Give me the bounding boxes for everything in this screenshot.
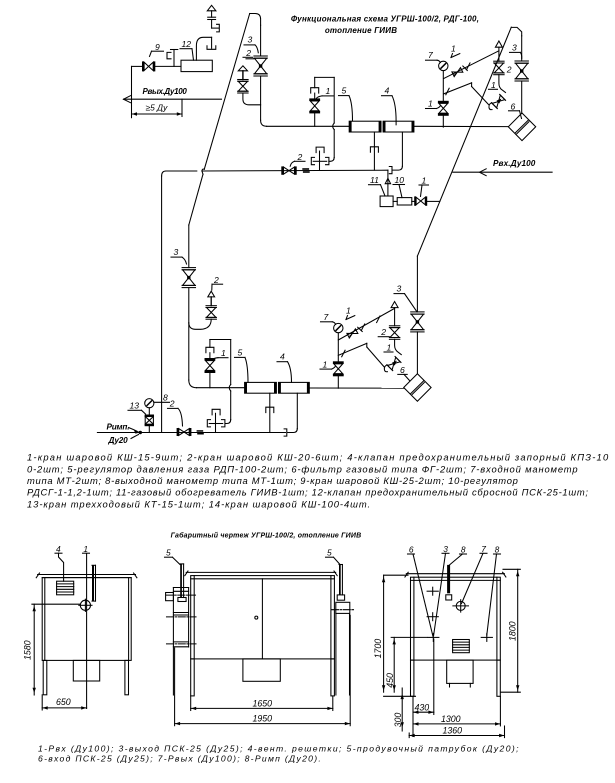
- svg-text:1-Рвх (Ду100); 3-выход ПСК-25: 1-Рвх (Ду100); 3-выход ПСК-25 (Ду25); 4-…: [38, 743, 520, 753]
- svg-text:2: 2: [245, 48, 251, 58]
- wire reg pipe lower right: [309, 387, 403, 389]
- cabinet B body: [191, 576, 335, 659]
- wire outlet pipe: [124, 98, 222, 100]
- stack union: [212, 27, 219, 29]
- gauge stem lower: [337, 333, 339, 362]
- purge tip lower-left: [208, 291, 215, 297]
- stack flanges: [208, 16, 216, 18]
- svg-text:Рвх.Ду100: Рвх.Ду100: [493, 159, 536, 168]
- regulator 5 RDP-100 lower: [245, 382, 277, 393]
- stem reg5 upper: [373, 132, 375, 170]
- stack drain cap: [207, 46, 216, 50]
- purge curve: [243, 93, 261, 105]
- cabinet B left pipes: [172, 588, 174, 696]
- svg-text:1650: 1650: [253, 698, 273, 708]
- purge tip triangle: [238, 66, 247, 71]
- cabinet C legs: [411, 660, 414, 696]
- ground line: [384, 695, 416, 697]
- arrow inlet: [480, 169, 487, 176]
- cabinet A louver 4: [57, 581, 74, 595]
- svg-text:1950: 1950: [253, 714, 273, 724]
- svg-text:1700: 1700: [373, 639, 383, 659]
- cabinet A body: [42, 578, 131, 661]
- svg-text:3: 3: [512, 42, 517, 52]
- cabinet A legs: [43, 660, 47, 694]
- cabinet C cross vyh: [428, 636, 439, 638]
- purge valve 2 upper-left: [238, 79, 248, 81]
- purge valve 2 upper-right: [494, 60, 504, 62]
- cap end lower manifold: [284, 429, 287, 436]
- valve 3 upper-right KSh-100: [515, 60, 528, 62]
- cabinet A pipe axis: [86, 554, 88, 709]
- flue pipe: [196, 37, 211, 60]
- purge valve 2 lower-left: [206, 305, 216, 307]
- cabinet B bottom box: [243, 659, 280, 681]
- svg-text:1: 1: [491, 80, 496, 90]
- IFS joint lower: [212, 409, 220, 415]
- left outlet riser: [162, 171, 166, 176]
- svg-text:3: 3: [174, 247, 179, 257]
- wire outlet manifold upper: [166, 170, 197, 172]
- svg-text:1: 1: [346, 306, 351, 316]
- svg-text:650: 650: [56, 697, 71, 707]
- c bracket lower: [384, 365, 387, 372]
- cabinet B legs: [191, 659, 195, 696]
- svg-text:Римп.: Римп.: [107, 422, 130, 431]
- wire to lower reg pipe: [189, 380, 197, 388]
- bend to diagonal: [250, 14, 261, 26]
- svg-text:1360: 1360: [443, 726, 463, 736]
- cabinet C circle 7: [456, 601, 465, 610]
- svg-text:13-кран трехходовый КТ-15-1шт;: 13-кран трехходовый КТ-15-1шт; 14-кран ш…: [27, 498, 371, 509]
- dim 1700: [383, 575, 385, 692]
- svg-text:11: 11: [370, 175, 379, 185]
- svg-text:4: 4: [280, 352, 285, 362]
- svg-text:1: 1: [451, 44, 456, 54]
- svg-text:6: 6: [400, 365, 405, 375]
- cap over valve lower: [206, 347, 214, 352]
- svg-text:2: 2: [213, 275, 219, 285]
- cabinet B purge pipe left 5: [180, 564, 182, 598]
- valve 1 gauge upper: [438, 101, 449, 104]
- valve 9: [142, 61, 144, 71]
- cabinet A pipe height line: [32, 603, 80, 605]
- three-way valve 13: [148, 408, 150, 415]
- purge stack lower-center: [391, 302, 398, 308]
- cabinet C roof: [406, 573, 504, 575]
- svg-text:1580: 1580: [23, 640, 33, 660]
- cabinet A roof: [38, 574, 136, 576]
- svg-text:Габаритный чертеж УГРШ-100/2,: Габаритный чертеж УГРШ-100/2, отопление …: [171, 532, 362, 540]
- cabinet B handle: [255, 616, 258, 619]
- wire right main vertical: [521, 36, 523, 61]
- svg-text:1800: 1800: [507, 621, 517, 641]
- dim 1950: [174, 648, 176, 726]
- svg-text:7: 7: [324, 312, 330, 322]
- IFS joint upper: [316, 147, 324, 153]
- junction dot: [139, 431, 142, 434]
- cabinet B roof: [186, 571, 336, 573]
- cabinet A circle: [80, 600, 90, 610]
- c bracket upper: [489, 103, 492, 110]
- svg-text:12: 12: [182, 39, 192, 49]
- cabinet C louver: [453, 640, 470, 653]
- relief valve PSK lower: [387, 357, 401, 371]
- gauge 7 lower: [334, 323, 343, 332]
- regulator 5 RDP-100 upper: [349, 121, 381, 132]
- cabinet C cross 8b: [481, 636, 492, 638]
- wire valve9 branch: [132, 65, 143, 67]
- valve 3 lower-left KSh-100: [182, 267, 195, 269]
- svg-text:8: 8: [495, 545, 500, 555]
- bend top right: [511, 27, 521, 35]
- stem bypass upper: [314, 114, 316, 127]
- valve 2 manifold upper: [281, 166, 283, 174]
- cabinet B divider: [261, 579, 263, 659]
- cabinet C cross 3: [427, 590, 438, 592]
- dim 450: [391, 636, 427, 638]
- stem reg5 lower: [269, 393, 271, 432]
- svg-text:1-кран шаровой КШ-15-9шт; 2-кр: 1-кран шаровой КШ-15-9шт; 2-кран шаровой…: [27, 452, 609, 463]
- svg-text:1: 1: [422, 176, 427, 186]
- svg-text:2: 2: [297, 152, 303, 162]
- svg-text:6: 6: [511, 102, 516, 112]
- gauge impulse diagonal upper: [444, 51, 499, 79]
- gauge 8: [145, 399, 154, 408]
- cabinet C bottom box: [447, 660, 473, 683]
- cabinet C vent bar 8: [447, 565, 450, 593]
- regulator 10 RDSG: [397, 198, 412, 205]
- svg-text:13: 13: [130, 401, 140, 411]
- wire lower-left vertical: [188, 225, 190, 268]
- vent stack pipe: [211, 37, 213, 48]
- wire diagonal upper-left: [204, 14, 249, 170]
- purge drop kink lower: [395, 339, 402, 354]
- wire riser upper-left: [260, 25, 262, 56]
- svg-text:4: 4: [56, 544, 61, 554]
- cabinet A vent flag: [92, 565, 94, 601]
- cabinet A bottom box: [73, 660, 99, 681]
- filter 6 upper: [508, 113, 535, 141]
- union on branch: [173, 50, 175, 67]
- svg-text:0-2шт; 5-регулятор давления га: 0-2шт; 5-регулятор давления газа РДП-100…: [27, 463, 578, 474]
- stem valve4 upper: [401, 132, 403, 166]
- valve 3 lower-right KSh-100: [411, 311, 424, 313]
- svg-text:6-вход ПСК-25 (Ду25); 7-Рвых (: 6-вход ПСК-25 (Ду25); 7-Рвых (Ду100); 8-…: [38, 754, 322, 764]
- insulation mark lower: [197, 430, 204, 432]
- filter 6 lower: [404, 374, 431, 402]
- gauge stem upper: [442, 71, 444, 101]
- cabinet B purge pipe right 5: [339, 565, 341, 595]
- hop over manifold: [202, 169, 204, 174]
- svg-text:типа МТ-2шт; 8-выходной маноме: типа МТ-2шт; 8-выходной манометр типа МТ…: [27, 475, 519, 486]
- wire reg feed pipe upper: [267, 125, 349, 127]
- svg-text:5: 5: [238, 347, 243, 357]
- svg-text:450: 450: [385, 673, 395, 688]
- svg-text:300: 300: [393, 713, 403, 728]
- relief zigzag upper: [444, 83, 472, 94]
- dim 430: [433, 639, 435, 715]
- cap end upper manifold: [389, 167, 392, 174]
- svg-text:2: 2: [380, 327, 386, 337]
- svg-text:4: 4: [385, 86, 390, 96]
- insulation mark: [302, 168, 309, 170]
- svg-text:2: 2: [169, 399, 175, 409]
- purge curve lower-left: [189, 319, 211, 329]
- svg-text:3: 3: [443, 544, 448, 554]
- stem bypass lower: [209, 373, 211, 388]
- dim 300: [401, 688, 403, 731]
- svg-text:3: 3: [397, 284, 402, 294]
- svg-text:7: 7: [481, 544, 486, 554]
- wire heater to diagonal: [427, 200, 440, 202]
- svg-text:8: 8: [163, 392, 168, 402]
- hop loop lower: [229, 385, 231, 392]
- wire filter to reg pipe: [414, 125, 508, 127]
- purge stack upper-right: [495, 41, 502, 47]
- purge valve 2 lower-center: [389, 325, 399, 327]
- valve 2 impulse: [177, 428, 179, 436]
- wire reg feed pipe lower: [197, 387, 245, 389]
- cap over valve 1: [311, 88, 319, 93]
- valve 1 heater: [414, 196, 416, 205]
- svg-text:1300: 1300: [441, 714, 461, 724]
- svg-text:5: 5: [327, 548, 332, 558]
- svg-text:3: 3: [248, 35, 253, 45]
- svg-text:1: 1: [83, 544, 88, 554]
- arrow outlet: [124, 96, 131, 103]
- cabinet C cross 6: [427, 616, 438, 618]
- svg-text:7: 7: [428, 50, 434, 60]
- svg-text:8: 8: [461, 545, 466, 555]
- dim 650: [41, 695, 43, 710]
- svg-text:Рвых.Ду100: Рвых.Ду100: [143, 87, 188, 96]
- wire valve to reg pipe: [260, 76, 262, 120]
- valve 4 KPZ-100 upper: [383, 121, 414, 132]
- svg-text:1: 1: [428, 99, 433, 109]
- svg-text:5: 5: [166, 548, 171, 558]
- bypass loop upper: [314, 77, 316, 87]
- svg-text:РДСГ-1-1,2-1шт; 11-газовый обо: РДСГ-1-1,2-1шт; 11-газовый обогреватель …: [27, 487, 589, 498]
- valve 3 upper-left KSh-100: [254, 55, 267, 57]
- svg-text:430: 430: [415, 702, 430, 712]
- heater 12: [181, 60, 212, 71]
- svg-text:≥5 Ду: ≥5 Ду: [146, 103, 169, 113]
- valve 4 KPZ-100 lower: [279, 382, 310, 393]
- cabinet B right pipe: [336, 602, 350, 613]
- dim 1360: [408, 733, 410, 738]
- svg-text:5: 5: [342, 85, 347, 95]
- svg-text:9: 9: [155, 42, 160, 52]
- valve 1 bypass upper: [309, 98, 320, 101]
- cabinet C body: [411, 577, 501, 660]
- relief zigzag lower: [338, 343, 367, 355]
- stack tip: [207, 5, 216, 11]
- rimp arrow: [129, 428, 138, 432]
- gauge impulse diagonal lower: [338, 308, 394, 340]
- gauge 7 upper: [439, 61, 448, 70]
- stem valve4 lower: [296, 393, 298, 429]
- svg-text:2: 2: [506, 64, 512, 74]
- relief valve PSK upper: [491, 94, 505, 108]
- heater 11 GIIV: [380, 196, 393, 207]
- dim 1800: [503, 568, 520, 570]
- wire impulse pipe lower: [97, 432, 285, 434]
- svg-text:Ду20: Ду20: [108, 436, 129, 445]
- svg-text:6: 6: [409, 545, 414, 555]
- bypass loop lower: [209, 340, 211, 348]
- svg-text:1: 1: [323, 359, 328, 369]
- svg-text:1: 1: [387, 343, 392, 353]
- hop loop: [333, 123, 335, 130]
- heater feed arrow: [387, 170, 389, 196]
- svg-text:1: 1: [326, 86, 331, 96]
- centerlines left: [166, 595, 196, 644]
- purge tap: [246, 58, 254, 60]
- dim 1580: [33, 604, 35, 695]
- wire inlet diagonal: [417, 27, 511, 256]
- svg-text:10: 10: [395, 175, 405, 185]
- wire inlet pipe: [453, 171, 552, 173]
- dim 1300: [499, 696, 501, 726]
- svg-text:отопление ГИИВ: отопление ГИИВ: [325, 26, 397, 35]
- purge drop kink: [499, 75, 506, 93]
- valve 1 gauge lower: [333, 361, 344, 364]
- svg-text:Функциональная схема УГРШ-100/: Функциональная схема УГРШ-100/2, РДГ-100…: [291, 15, 479, 24]
- dim 1650: [190, 696, 192, 711]
- valve 1 bypass lower: [205, 358, 216, 361]
- svg-text:1: 1: [221, 348, 226, 358]
